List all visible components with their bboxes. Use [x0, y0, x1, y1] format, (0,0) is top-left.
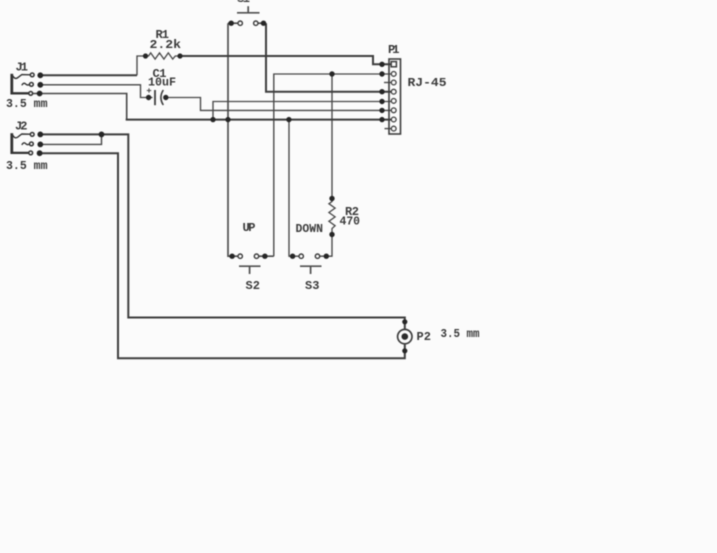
svg-text:P2: P2 — [417, 330, 432, 344]
svg-text:P1: P1 — [388, 43, 400, 57]
svg-text:2.2k: 2.2k — [150, 38, 182, 52]
svg-text:DOWN: DOWN — [296, 222, 324, 236]
svg-text:RJ-45: RJ-45 — [408, 76, 447, 90]
svg-text:3.5 mm: 3.5 mm — [6, 159, 48, 173]
svg-text:UP: UP — [243, 221, 256, 235]
svg-text:470: 470 — [340, 215, 361, 229]
svg-text:3.5 mm: 3.5 mm — [441, 327, 480, 341]
svg-text:J2: J2 — [15, 120, 28, 134]
svg-text:S2: S2 — [246, 279, 261, 293]
svg-text:J1: J1 — [16, 60, 29, 74]
svg-text:10uF: 10uF — [148, 75, 176, 89]
svg-text:S3: S3 — [305, 279, 320, 293]
svg-text:3.5 mm: 3.5 mm — [6, 97, 48, 111]
svg-text:S1: S1 — [237, 0, 250, 6]
